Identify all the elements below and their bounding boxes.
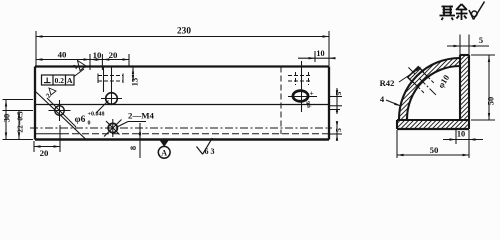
svg-text:A: A <box>67 76 73 85</box>
svg-text:0.2: 0.2 <box>55 76 65 85</box>
svg-text:13: 13 <box>131 78 140 86</box>
svg-text:22−0.5: 22−0.5 <box>16 111 25 133</box>
svg-text:20: 20 <box>109 50 118 60</box>
svg-text:4: 4 <box>380 94 385 104</box>
svg-text:230: 230 <box>177 27 191 37</box>
svg-text:R42: R42 <box>380 78 395 88</box>
svg-text:10: 10 <box>457 130 465 139</box>
svg-text:10: 10 <box>93 50 102 60</box>
svg-text:+0.048: +0.048 <box>88 112 105 118</box>
svg-text:50: 50 <box>487 97 496 105</box>
svg-text:20: 20 <box>40 148 49 158</box>
svg-text:φ6: φ6 <box>306 101 312 108</box>
svg-text:0: 0 <box>88 121 91 127</box>
svg-text:50: 50 <box>430 145 439 155</box>
svg-text:5: 5 <box>334 91 343 95</box>
svg-text:10: 10 <box>316 49 324 58</box>
svg-text:30: 30 <box>2 114 12 123</box>
svg-text:A: A <box>161 149 167 158</box>
svg-text:40: 40 <box>58 49 67 59</box>
svg-text:5: 5 <box>334 128 343 132</box>
svg-text:φ6: φ6 <box>75 115 86 125</box>
svg-text:8: 8 <box>129 146 138 150</box>
svg-text:2—M4: 2—M4 <box>128 111 154 121</box>
svg-text:+: + <box>310 89 314 98</box>
svg-text:5: 5 <box>479 36 483 45</box>
svg-text:6 3: 6 3 <box>205 147 215 156</box>
